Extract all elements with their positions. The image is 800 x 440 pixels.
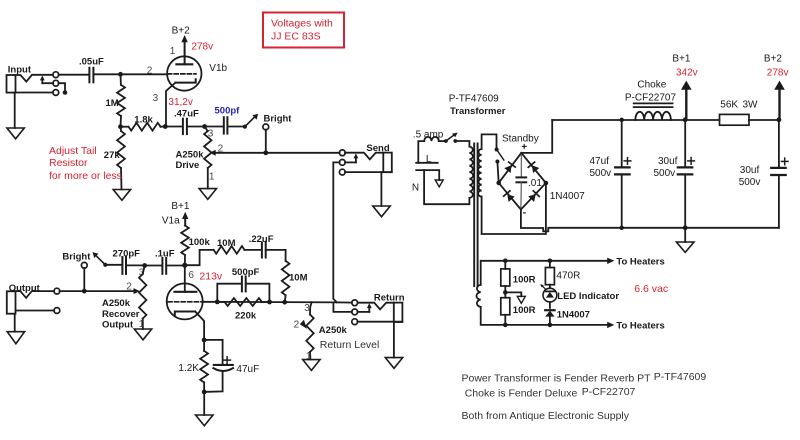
svg-text:470R: 470R xyxy=(556,270,580,281)
transformer heater winding xyxy=(476,285,480,307)
send jack xyxy=(339,150,391,175)
svg-text:30uf: 30uf xyxy=(658,156,678,167)
svg-text:500v: 500v xyxy=(590,168,612,179)
node B+2 junction xyxy=(777,117,782,122)
svg-text:3W: 3W xyxy=(743,100,759,111)
svg-text:3: 3 xyxy=(153,93,159,104)
svg-text:2: 2 xyxy=(294,319,300,330)
node 1M/1.8k/27k junction xyxy=(118,124,123,129)
ground (Return Level pot) xyxy=(303,360,320,371)
wire heater bottom rail xyxy=(481,307,615,328)
resistor 27k xyxy=(117,127,125,190)
svg-text:Drive: Drive xyxy=(176,160,200,171)
label A250k Recover Output xyxy=(102,298,140,331)
resistor 56K 3W (box) xyxy=(720,114,750,125)
wire V1a cathode down xyxy=(195,312,204,340)
wire up to bright contact xyxy=(83,268,85,291)
svg-text:100k: 100k xyxy=(189,237,211,248)
svg-text:500pf: 500pf xyxy=(215,106,241,117)
svg-text:100R: 100R xyxy=(513,274,536,285)
transformer core xyxy=(474,144,477,287)
label 30uf 500v (first) xyxy=(654,156,678,179)
svg-text:278v: 278v xyxy=(767,67,789,78)
svg-text:1: 1 xyxy=(209,172,215,183)
node recover pot top xyxy=(142,263,147,268)
resistor 10M (feedback top) xyxy=(187,246,261,265)
diode D4 (lower right) xyxy=(528,191,539,202)
note box Voltages with JJ EC 83S xyxy=(263,13,344,48)
svg-text:342v: 342v xyxy=(676,67,698,78)
chassis ground (mains) xyxy=(435,170,443,187)
svg-text:B+2: B+2 xyxy=(172,26,191,37)
wire C.05uF to V1b grid xyxy=(93,73,167,75)
ground (send jack) xyxy=(373,172,390,217)
capacitor 270pF xyxy=(122,257,144,274)
capacitor .47uF xyxy=(165,119,204,134)
svg-text:500pF: 500pF xyxy=(232,267,260,278)
svg-text:1: 1 xyxy=(170,46,176,57)
svg-text:V1a: V1a xyxy=(162,216,180,227)
note power transformer xyxy=(462,371,707,384)
svg-text:1: 1 xyxy=(306,351,312,362)
ground (Recover pot) xyxy=(134,329,151,340)
svg-text:Input: Input xyxy=(8,64,32,75)
svg-text:Voltages with: Voltages with xyxy=(271,18,333,30)
svg-text:B+1: B+1 xyxy=(171,201,190,212)
svg-text:278v: 278v xyxy=(191,42,213,53)
resistor 100R (lower, box) xyxy=(501,292,510,325)
ground (return jack) xyxy=(385,322,402,368)
svg-text:Recover: Recover xyxy=(102,309,140,320)
input jack xyxy=(7,72,68,96)
svg-text:6: 6 xyxy=(188,270,194,281)
node cathode/.47uF junction xyxy=(163,124,168,129)
svg-text:To Heaters: To Heaters xyxy=(616,321,664,332)
capacitor .01 (snubber) xyxy=(516,153,526,210)
svg-text:56K: 56K xyxy=(720,100,738,111)
wire to return level pot pin3 xyxy=(310,302,312,314)
resistor 1M xyxy=(117,74,125,126)
svg-text:+: + xyxy=(521,142,527,153)
svg-text:P-TF47609: P-TF47609 xyxy=(449,94,499,105)
ground (Drive pot) xyxy=(199,189,216,200)
resistor 220k xyxy=(217,298,269,306)
wire bright sw to 270pF xyxy=(105,264,122,266)
capacitor .22uF xyxy=(262,243,286,261)
power arrow B+2 xyxy=(181,35,187,64)
wire bright switch to send line xyxy=(265,130,267,153)
svg-text:V1b: V1b xyxy=(209,63,227,74)
node choke/B+1 junction xyxy=(683,117,688,122)
label A250k Drive xyxy=(176,150,205,172)
svg-text:Adjust Tail: Adjust Tail xyxy=(49,145,97,157)
ground (V1a cathode) xyxy=(196,392,213,426)
node 47uf ground junction xyxy=(620,226,624,230)
op V1b triode envelope xyxy=(167,56,201,90)
svg-text:To Heaters: To Heaters xyxy=(616,256,664,267)
return jack xyxy=(352,300,403,325)
switch contact circle (output bright) xyxy=(81,262,87,268)
capacitor .05uF xyxy=(89,68,93,83)
svg-text:.05uF: .05uF xyxy=(79,57,104,68)
note Adjust Tail Resistor xyxy=(49,145,122,182)
wire heater top rail xyxy=(481,258,615,285)
resistor 1.2K xyxy=(200,340,208,392)
svg-text:for more or less: for more or less xyxy=(49,170,122,182)
svg-text:1.2K: 1.2K xyxy=(178,363,199,374)
ground (input jack) xyxy=(7,93,24,139)
note choke xyxy=(465,386,636,400)
V1a cathode xyxy=(175,312,195,316)
chassis ground (heater CT) xyxy=(505,292,525,303)
wire switch to primary xyxy=(455,141,469,147)
node heater top/470R xyxy=(548,259,553,264)
svg-text:10M: 10M xyxy=(217,238,236,249)
node grid junction xyxy=(118,72,123,77)
svg-text:500v: 500v xyxy=(739,177,761,188)
svg-text:500v: 500v xyxy=(654,168,676,179)
capacitor 30uf 500v (first) xyxy=(678,120,695,228)
capacitor 47uf 500v xyxy=(615,118,631,228)
svg-text:100R: 100R xyxy=(513,305,536,316)
potentiometer A250k Drive xyxy=(204,127,218,189)
inductor Choke P-CF22707 xyxy=(634,103,673,120)
capacitor 30uf 500v (second) xyxy=(771,120,788,228)
resistor 470R (box) xyxy=(545,261,554,289)
svg-text:47uf: 47uf xyxy=(590,156,610,167)
wire secondary bottom to bridge right xyxy=(482,183,546,234)
svg-text:-: - xyxy=(523,207,526,218)
svg-text:A250k: A250k xyxy=(102,298,131,309)
svg-text:30uf: 30uf xyxy=(740,165,760,176)
wire B+ rail xyxy=(552,119,719,121)
V1a grid (dashed) xyxy=(168,301,203,303)
svg-text:2: 2 xyxy=(147,65,153,76)
node cathode network bottom xyxy=(202,390,207,395)
label 30uf 500v (second) xyxy=(739,165,761,188)
terminal L xyxy=(416,154,438,165)
svg-text:P-CF22707: P-CF22707 xyxy=(582,386,636,398)
svg-text:47uF: 47uF xyxy=(236,364,259,375)
wire return normal branch xyxy=(333,302,352,312)
svg-text:A250k: A250k xyxy=(176,150,205,161)
wire drive wiper to Send xyxy=(219,152,340,154)
power arrow B+1 + resistor 100k xyxy=(181,212,189,266)
svg-text:213v: 213v xyxy=(199,270,223,282)
svg-text:Bright: Bright xyxy=(264,113,293,124)
resistor 1.8k xyxy=(121,123,166,131)
node heater bottom/diode xyxy=(548,323,553,328)
terminal N xyxy=(412,170,438,193)
svg-text:10M: 10M xyxy=(289,272,308,283)
V1b cathode xyxy=(175,79,195,82)
potentiometer A250k Return Level xyxy=(300,315,314,360)
V1a plate xyxy=(175,265,197,292)
node cathode network top xyxy=(202,338,207,343)
svg-text:Bright: Bright xyxy=(62,251,91,262)
resistor 100R (upper, box) xyxy=(501,261,510,293)
svg-text:.01: .01 xyxy=(528,178,542,189)
switch Standby xyxy=(495,148,504,164)
wire bridge - to ground rail xyxy=(521,210,779,232)
svg-text:A250k: A250k xyxy=(319,325,348,336)
wire 56K to B+2 xyxy=(749,119,779,121)
svg-text:1.8k: 1.8k xyxy=(134,114,153,125)
power arrow B+1 (supply) xyxy=(681,81,692,120)
ground (output jack) xyxy=(7,314,24,344)
diode D1 (upper left) xyxy=(504,162,515,173)
svg-text:P-TF47609: P-TF47609 xyxy=(654,371,707,383)
node heater top/100R xyxy=(503,259,508,264)
wire output to recover wiper xyxy=(60,290,134,292)
ground (filter caps) xyxy=(676,228,694,253)
svg-text:.1uF: .1uF xyxy=(155,248,175,259)
switch contact circle xyxy=(263,124,269,130)
diode 1N4007 (heater) xyxy=(545,302,554,325)
svg-text:.22uF: .22uF xyxy=(249,234,274,245)
node drive pot top junction xyxy=(202,124,207,129)
V1b plate xyxy=(176,63,192,65)
svg-text:Return Level: Return Level xyxy=(320,339,380,351)
node grid/220k junction xyxy=(215,300,220,305)
output jack xyxy=(7,288,60,313)
label P-TF47609 Transformer xyxy=(449,94,506,118)
capacitor 500pf (bright) xyxy=(205,117,245,133)
svg-text:27k: 27k xyxy=(104,150,121,161)
svg-text:P-CF22707: P-CF22707 xyxy=(625,93,677,104)
potentiometer A250k Recover Output xyxy=(134,266,147,330)
node output/bright junction xyxy=(82,289,87,294)
svg-text:LED Indicator: LED Indicator xyxy=(557,291,619,302)
wire V1a grid out xyxy=(203,301,339,304)
label Choke P-CF22707 xyxy=(625,80,677,104)
wire send normal down xyxy=(333,162,339,302)
svg-text:Power Transformer is Fender Re: Power Transformer is Fender Reverb PT xyxy=(462,372,652,384)
wire N to primary bottom xyxy=(424,170,469,204)
transformer T1 primary winding xyxy=(469,147,473,198)
svg-text:270pF: 270pF xyxy=(113,248,141,259)
wire grid line to return tip xyxy=(339,301,352,303)
svg-text:2: 2 xyxy=(126,282,132,293)
svg-text:6.6 vac: 6.6 vac xyxy=(634,283,668,295)
wire input to C .05uF xyxy=(59,74,89,76)
fuse .5 amp xyxy=(418,137,445,163)
node ground rail junction xyxy=(683,225,688,230)
node 10M/grid-line junction xyxy=(282,300,287,305)
bridge rectifier diamond xyxy=(496,153,548,210)
svg-text:Choke is Fender Deluxe: Choke is Fender Deluxe xyxy=(465,388,578,400)
switch Bright (drive) xyxy=(243,114,258,129)
wire standby to bridge xyxy=(497,162,498,183)
node bright/send junction xyxy=(263,150,268,155)
switch Bright (output) xyxy=(93,252,108,267)
LED indicator xyxy=(540,284,557,302)
svg-text:B+2: B+2 xyxy=(764,53,783,64)
node V1a plate junction xyxy=(182,263,187,268)
svg-text:1N4007: 1N4007 xyxy=(550,191,585,202)
svg-text:JJ EC 83S: JJ EC 83S xyxy=(271,31,321,43)
node 220k/500pF right junction xyxy=(267,300,272,305)
svg-text:220k: 220k xyxy=(235,310,257,321)
op V1a triode envelope xyxy=(167,283,203,319)
resistor 10M (feedback vertical) xyxy=(282,261,290,302)
diode D2 (upper right) xyxy=(528,162,539,173)
V1b grid (dashed) xyxy=(168,73,196,75)
capacitor .1uF xyxy=(145,258,185,274)
capacitor 500pF (loop) xyxy=(217,277,269,303)
wire bridge + to B rail xyxy=(521,120,552,153)
label 56K 3W xyxy=(720,100,758,111)
svg-text:3: 3 xyxy=(304,303,310,314)
svg-text:1M: 1M xyxy=(106,98,119,109)
svg-text:Transformer: Transformer xyxy=(450,106,506,117)
capacitor 47uF (cathode bypass) xyxy=(204,340,233,392)
transformer T1 secondary winding xyxy=(478,149,481,197)
svg-text:1N4007: 1N4007 xyxy=(557,309,590,320)
svg-text:L: L xyxy=(426,154,432,165)
node heater bottom/100R xyxy=(503,323,508,328)
svg-text:Output: Output xyxy=(102,320,134,331)
ground (27k) xyxy=(113,190,130,201)
svg-text:.47uF: .47uF xyxy=(174,109,199,120)
svg-text:31,2v: 31,2v xyxy=(168,97,192,108)
svg-text:N: N xyxy=(412,182,419,193)
wire secondary top to standby xyxy=(482,134,497,149)
label 47uf 500v xyxy=(590,156,612,179)
svg-text:B+1: B+1 xyxy=(672,53,691,64)
wire V1b cathode down xyxy=(165,83,175,127)
switch (mains) xyxy=(444,133,458,143)
svg-text:Resistor: Resistor xyxy=(49,157,88,169)
diode D3 (lower left) xyxy=(504,191,515,202)
power arrow B+2 (supply) xyxy=(774,81,785,120)
node heater center tap xyxy=(503,290,508,295)
svg-text:Choke: Choke xyxy=(637,80,666,91)
svg-text:Both from Antique Electronic S: Both from Antique Electronic Supply xyxy=(462,410,630,422)
